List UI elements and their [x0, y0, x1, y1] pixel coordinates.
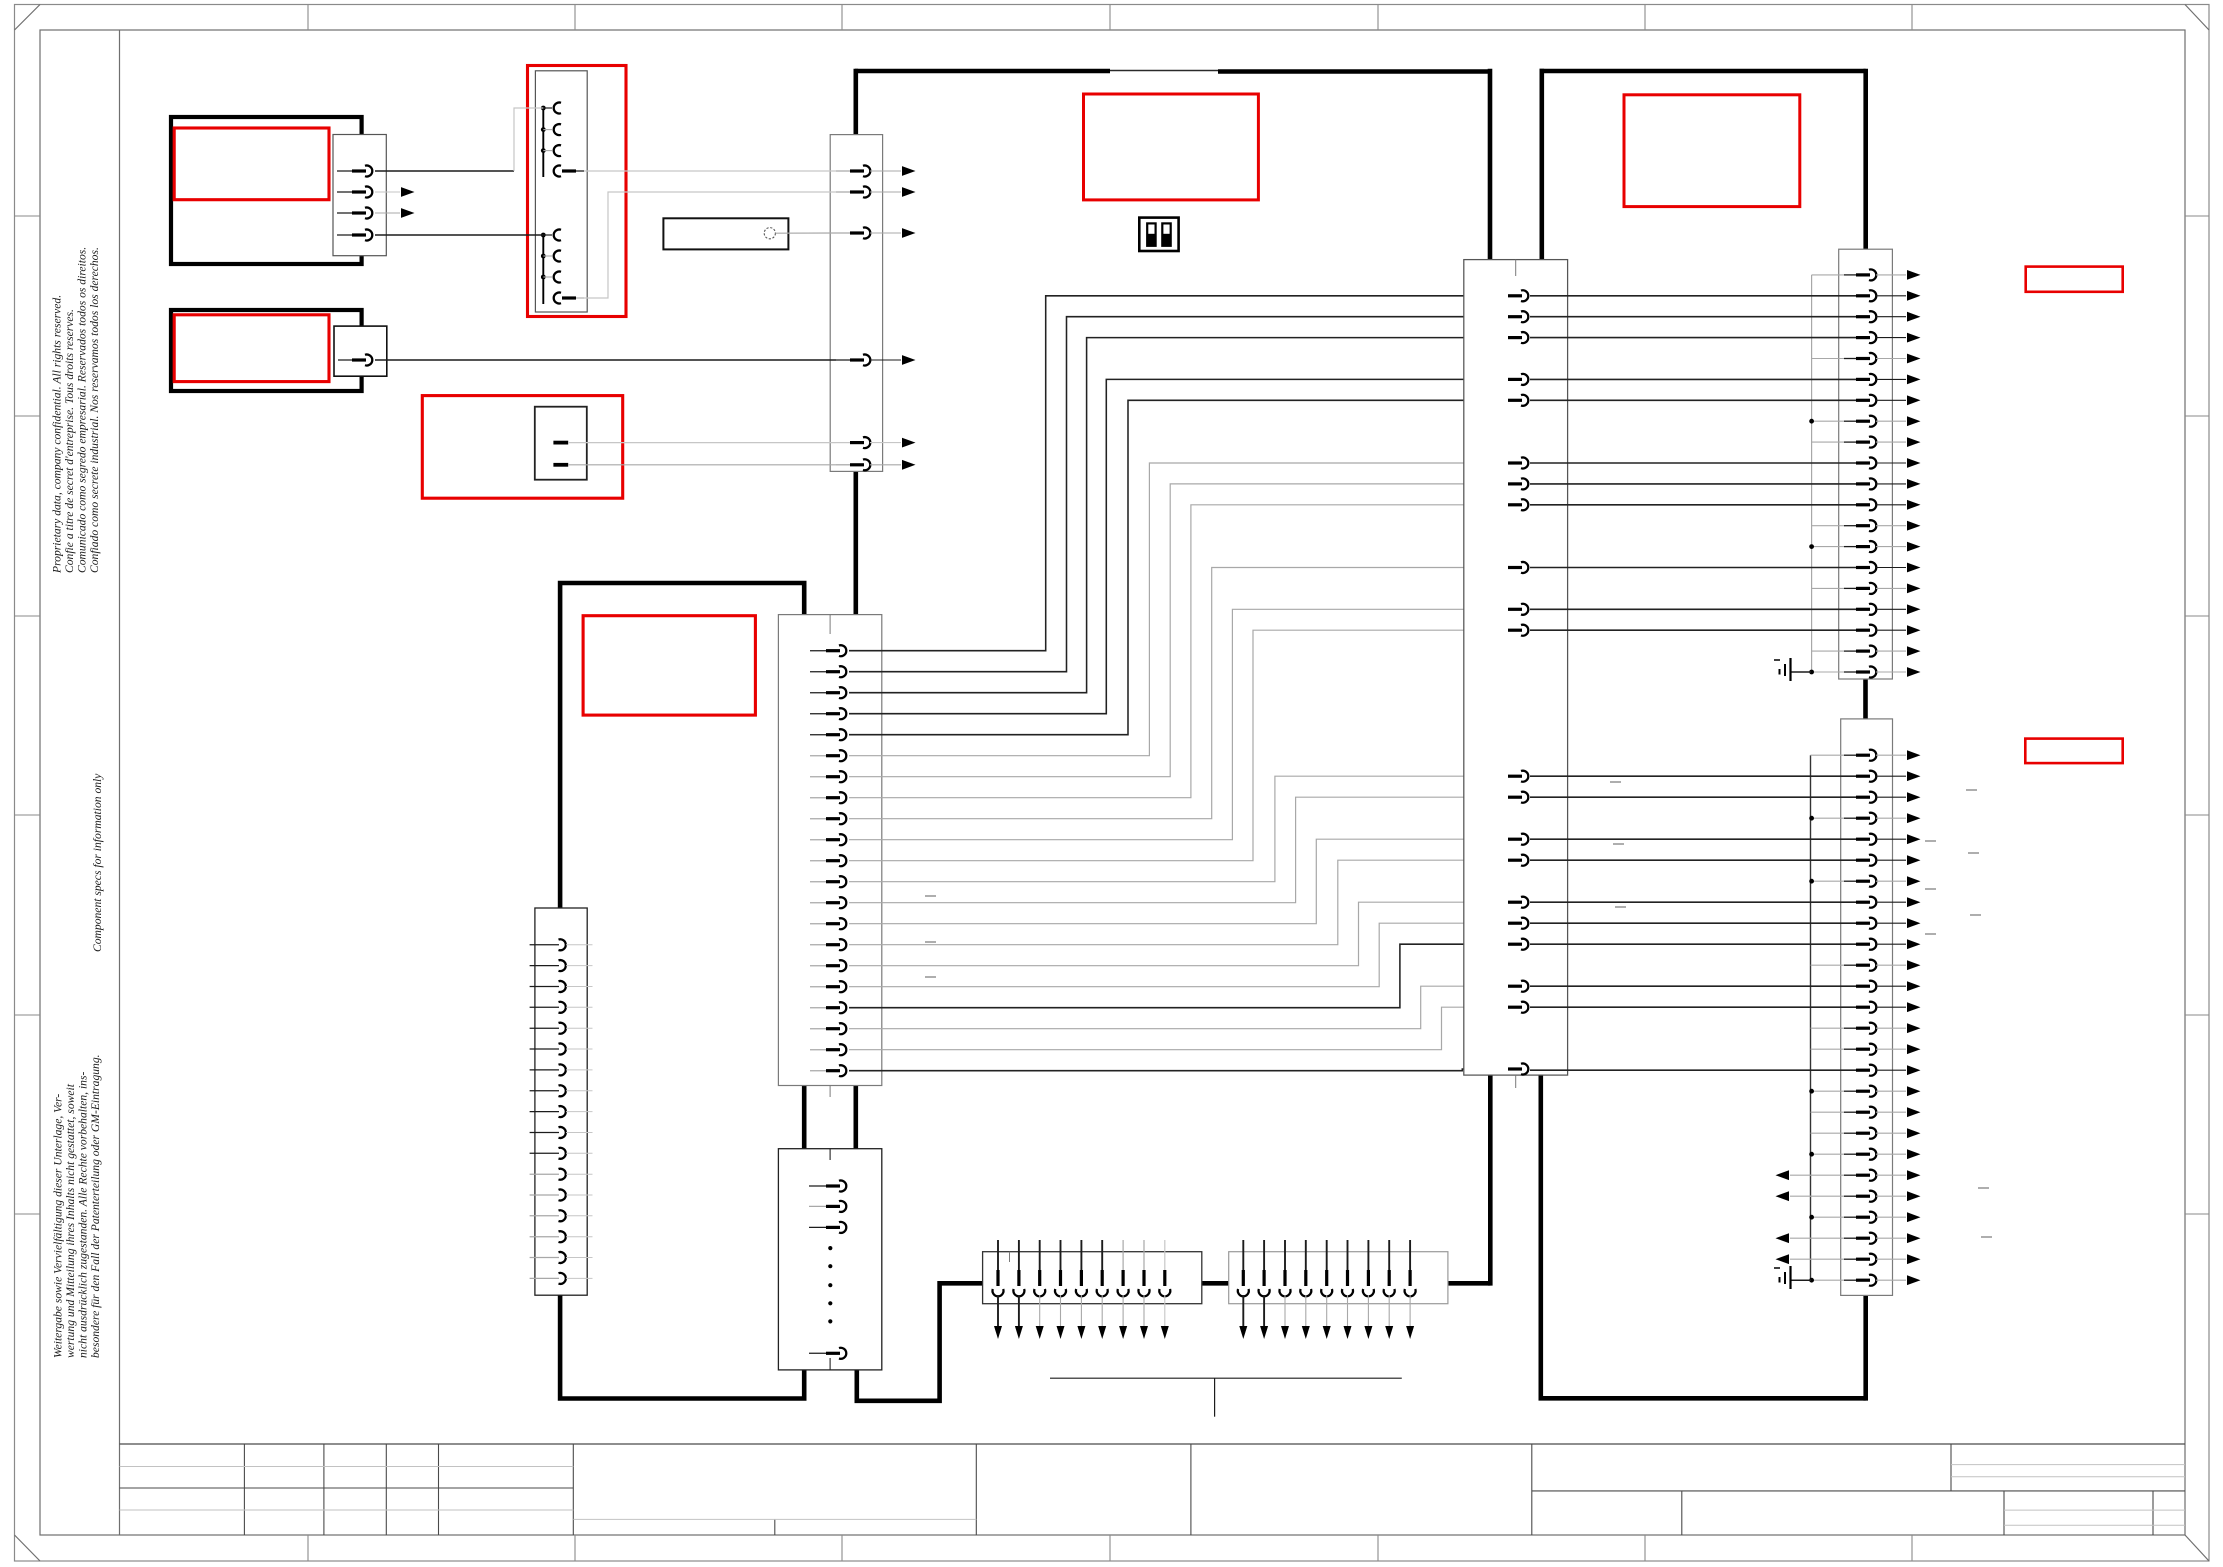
connector strip G body — [1841, 719, 1893, 1296]
strip E pin 3 — [1508, 336, 1522, 339]
wire B17 cascade to center connector — [849, 923, 1509, 987]
strip F pin 5 — [1812, 358, 1845, 360]
strip G pin 8 — [1530, 901, 1857, 903]
strip F pin 13 arrow — [1907, 521, 1921, 531]
strip D pin 4 — [530, 1006, 559, 1008]
strip D pin 3 — [530, 986, 559, 988]
strip B pin 17 — [810, 986, 828, 988]
strip F pin 15 — [1530, 567, 1857, 569]
strip G pin 8 arrow — [1907, 897, 1921, 907]
strip G pin 22 — [1811, 1195, 1846, 1197]
strip B pin 1 — [810, 650, 828, 652]
component F1 (fuse element) — [663, 218, 788, 249]
arrow block H pin 4 — [1060, 1240, 1062, 1270]
wire B8 cascade to center connector — [849, 505, 1509, 798]
strip A pin 6 arrow — [902, 460, 916, 470]
strip G pin 1 — [1811, 754, 1846, 756]
strip B pin 5 — [810, 734, 828, 736]
B1 pin 3 — [337, 212, 354, 214]
K1 pin 2 — [541, 127, 546, 132]
strip G pin 24 — [1811, 1237, 1846, 1239]
strip G pin 20 arrow — [1907, 1149, 1921, 1159]
strip D pin 14 — [530, 1215, 559, 1217]
strip F pin 16 arrow — [1907, 584, 1921, 594]
strip F pin 12 arrow — [1907, 500, 1921, 510]
strip G pin 18 — [1811, 1111, 1846, 1113]
strip F pin 17 — [1530, 608, 1857, 610]
strip E top center tick — [1515, 260, 1517, 276]
strip B pin 15 — [810, 944, 828, 946]
strip B pin 4 — [810, 713, 828, 715]
B1 pin 1 — [337, 170, 354, 172]
wire B10 cascade to center connector — [849, 609, 1509, 839]
K1 pin 4 — [554, 166, 561, 177]
strip E pin 1 — [1508, 294, 1522, 297]
arrow block I pin 6 — [1347, 1240, 1349, 1270]
frame zone ticks right margin — [2185, 216, 2209, 1214]
red label frame R4 (strip G label) — [2025, 739, 2122, 764]
strip F pin 3 arrow — [1907, 312, 1921, 322]
strip D pin 16 — [530, 1257, 559, 1259]
wire K1.8 to strip A pin2 — [584, 192, 836, 298]
K1 bus upper — [542, 108, 544, 177]
K1 body — [535, 71, 587, 312]
strip F pin 14 arrow — [1907, 542, 1921, 552]
strip E pin 4 — [1508, 378, 1522, 381]
K2 pin 2 — [553, 463, 568, 467]
ground at strip F pin 20 — [1791, 671, 1811, 673]
strip F pin 1 — [1812, 274, 1845, 276]
K1 pin 5 — [541, 233, 546, 238]
module M2 left ECU outline — [560, 583, 804, 908]
strip C bottom center tick — [829, 1358, 831, 1370]
wire B11 cascade to center connector — [849, 630, 1509, 861]
connector strip F body — [1839, 249, 1893, 679]
red label frame R1 (central module) — [1084, 94, 1259, 200]
strip A pin 1 — [836, 170, 852, 172]
wire B1.3 stub — [375, 212, 400, 214]
strip E pin 10 — [1508, 608, 1522, 611]
strip F pin 13 — [1812, 525, 1845, 527]
wire B1.1 to K1 — [375, 170, 514, 172]
strip G pin 14 arrow — [1907, 1023, 1921, 1033]
strip D pin 8 — [530, 1090, 559, 1092]
wire B4 cascade to center connector — [849, 379, 1509, 713]
strip A pin 3 arrow — [902, 228, 916, 238]
strip G pin 6 — [1530, 859, 1857, 861]
wire B16 cascade to center connector — [849, 902, 1509, 966]
module M2 red highlight — [583, 616, 755, 715]
strip G pin 12 arrow — [1907, 981, 1921, 991]
arrow block H pin 5 — [1080, 1240, 1082, 1270]
strip F pin 7 arrow — [1907, 395, 1921, 405]
strip B pin 18 — [810, 1007, 828, 1009]
strip G pin 10 — [1530, 943, 1857, 945]
strip G pin 17 — [1811, 1090, 1846, 1092]
strip F pin 15 arrow — [1907, 563, 1921, 573]
strip G pin 23 — [1811, 1216, 1846, 1218]
strip E pin 5 — [1508, 399, 1522, 402]
strip G pin 2 — [1530, 775, 1857, 777]
strip F pin 8 arrow — [1907, 416, 1921, 426]
component box B1 (sensor unit) — [171, 117, 362, 264]
strip G pin 21 arrow — [1907, 1170, 1921, 1180]
strip F pin 18 arrow — [1907, 625, 1921, 635]
arrow block H pin 7 — [1122, 1240, 1124, 1270]
wire B3 cascade to center connector — [849, 338, 1509, 693]
module M3 right ECU outline — [1540, 69, 1866, 74]
strip G pin 21 — [1811, 1174, 1846, 1176]
strip E pin 13 — [1508, 796, 1522, 799]
arrow block I pin 4 — [1305, 1240, 1307, 1270]
strip B bottom center tick — [829, 1086, 831, 1098]
strip F pin 20 arrow — [1907, 667, 1921, 677]
wire B1.2 stub — [375, 191, 400, 193]
strip F pin 10 arrow — [1907, 458, 1921, 468]
strip F pin 19 — [1812, 650, 1845, 652]
frame corner diagonal top-left — [15, 5, 41, 31]
strip A pin 1 arrow — [902, 166, 916, 176]
frame corner diagonal bottom-left — [15, 1535, 41, 1561]
arrow block H pin 1 — [997, 1240, 999, 1270]
strip B pin 3 — [810, 692, 828, 694]
strip G pin 15 arrow — [1907, 1044, 1921, 1054]
frame corner diagonal top-right — [2185, 5, 2209, 31]
strip G pin 18 arrow — [1907, 1107, 1921, 1117]
strip G pin 25 left arrow — [1790, 1258, 1812, 1260]
strip D pin 7 — [530, 1069, 559, 1071]
arrow block I pin 2 — [1263, 1240, 1265, 1270]
K2 body — [535, 407, 587, 480]
svg-text:wertung und Mitteilung ihres I: wertung und Mitteilung ihres Inhalts nic… — [64, 1083, 77, 1358]
strip F pin 7 — [1530, 399, 1857, 401]
strip F pin 2 arrow — [1907, 291, 1921, 301]
strip G pin 26 arrow — [1907, 1275, 1921, 1285]
strip G pin 4 arrow — [1907, 813, 1921, 823]
module M1 central ECU outline — [855, 69, 1110, 74]
strip G pin 10 arrow — [1907, 939, 1921, 949]
wire B1.4 to K1 lower — [375, 234, 543, 236]
strip B pin 13 — [810, 902, 828, 904]
strip B pin 6 — [810, 755, 828, 757]
strip E pin 14 — [1508, 838, 1522, 841]
K1 pin 7 — [541, 275, 546, 280]
connector K1 red highlight — [528, 66, 627, 317]
strip G pin 7 arrow — [1907, 876, 1921, 886]
strip B pin 7 — [810, 776, 828, 778]
strip D pin 15 — [530, 1236, 559, 1238]
margin note: Weitergabe (DE) — [52, 1054, 103, 1358]
arrow block H pin 8 — [1143, 1240, 1145, 1270]
wire B1 cascade to center connector — [849, 296, 1509, 651]
strip F pin 8 — [1812, 420, 1845, 422]
strip C pin 3 — [809, 1226, 828, 1228]
arrow block H pin 6 — [1101, 1240, 1103, 1270]
strip G pin 22 arrow — [1907, 1191, 1921, 1201]
strip E pin 12 — [1508, 775, 1522, 778]
strip D pin 9 — [530, 1111, 559, 1113]
strip F pin 19 arrow — [1907, 646, 1921, 656]
K1 pin 6 — [541, 254, 546, 259]
strip G pin 23 arrow — [1907, 1212, 1921, 1222]
strip B pin 20 — [810, 1049, 828, 1051]
strip C pin 2 — [809, 1205, 828, 1207]
connector strip D body — [535, 908, 587, 1295]
strip G pin 11 arrow — [1907, 960, 1921, 970]
strip G pin 13 — [1530, 1006, 1857, 1008]
svg-text:Comunicado como segredo empres: Comunicado como segredo empresarial. Res… — [76, 247, 89, 573]
arrow block H pin 9 — [1164, 1240, 1166, 1270]
component box B2 (sensor unit) — [171, 310, 362, 391]
strip E pin 17 — [1508, 922, 1522, 925]
B2 connector face — [334, 326, 387, 376]
strip F pin 9 — [1812, 441, 1845, 443]
strip D pin 1 — [530, 944, 559, 946]
strip F pin 3 — [1530, 316, 1857, 318]
K1 bus lower — [542, 235, 544, 304]
strip B pin 14 — [810, 923, 828, 925]
arrow block I pin 3 — [1284, 1240, 1286, 1270]
strip F pin 6 arrow — [1907, 375, 1921, 385]
wire B7 cascade to center connector — [849, 484, 1509, 777]
strip A pin 4 arrow — [902, 355, 916, 365]
arrow block H body — [983, 1252, 1202, 1304]
frame zone ticks bottom margin — [308, 1535, 1912, 1561]
svg-text:Confiado como secrete industri: Confiado como secrete industrial. Nos re… — [88, 247, 101, 573]
strip E pin 20 — [1508, 1006, 1522, 1009]
strip A pin 6 — [836, 464, 852, 466]
strip B pin 16 — [810, 965, 828, 967]
K1 pin 1 — [541, 106, 546, 111]
strip E pin 9 — [1508, 566, 1522, 569]
arrow block I pin 7 — [1367, 1240, 1369, 1270]
strip G pin 13 arrow — [1907, 1002, 1921, 1012]
strip G pin 4 — [1811, 817, 1846, 819]
strip G pin 16 — [1530, 1069, 1857, 1071]
strip G pin 25 arrow — [1907, 1254, 1921, 1264]
strip C ellipsis dots — [828, 1246, 832, 1324]
DIP switch S1 — [1139, 218, 1178, 251]
wire B21 cascade to center connector — [849, 1069, 1509, 1071]
frame zone ticks top margin — [308, 5, 1912, 31]
strip G pin 22 left arrow — [1790, 1195, 1812, 1197]
ground at strip G pin 26 — [1791, 1279, 1811, 1281]
red label frame R2 (right module) — [1624, 95, 1800, 207]
arrow block I body — [1229, 1252, 1448, 1304]
strip E pin 18 — [1508, 943, 1522, 946]
arrow block I pin 1 — [1242, 1240, 1244, 1270]
wire B2 cascade to center connector — [849, 317, 1509, 672]
strip B pin 12 — [810, 881, 828, 883]
strip F pin 1 arrow — [1907, 270, 1921, 280]
strip A pin 2 — [836, 191, 852, 193]
strip G pin 6 arrow — [1907, 855, 1921, 865]
strip B pin 21 — [810, 1070, 828, 1072]
strip F pin 4 — [1530, 337, 1857, 339]
strip G pin 16 arrow — [1907, 1065, 1921, 1075]
strip B top center tick — [829, 615, 831, 634]
arrow block I pin 5 — [1326, 1240, 1328, 1270]
title block vertical dividers — [244, 1444, 2153, 1535]
strip E pin 21 — [1508, 1067, 1522, 1070]
K2 pin 1 — [553, 441, 568, 445]
strip G pin 19 arrow — [1907, 1128, 1921, 1138]
strip C top center tick — [829, 1149, 831, 1160]
strip E pin 11 — [1508, 629, 1522, 632]
wire B12 cascade to center connector — [849, 776, 1509, 882]
connector strip E body — [1464, 260, 1568, 1076]
strip G pin 9 — [1530, 922, 1857, 924]
strip F pin 5 arrow — [1907, 354, 1921, 364]
svg-text:nicht ausdrücklich zugestanden: nicht ausdrücklich zugestanden. Alle Rec… — [77, 1072, 90, 1358]
strip B pin 10 — [810, 839, 828, 841]
wire K2.2 to strip A pin6 — [568, 464, 836, 466]
wire B2.1 to strip A pin4 — [375, 359, 836, 361]
strip G pin 14 — [1811, 1027, 1846, 1029]
K1 pin 3 — [541, 148, 546, 153]
arrow block H top tick — [1009, 1252, 1011, 1262]
K1 pin 8 — [554, 293, 561, 304]
margin note: proprietary data (EN/FR/PT/ES) — [51, 247, 102, 574]
wire B20 cascade to center connector — [849, 1007, 1509, 1049]
strip B pin 19 — [810, 1028, 828, 1030]
red label frame R3 (strip F label) — [2026, 267, 2123, 292]
connector strip A body — [830, 135, 882, 472]
strip D pin 6 — [530, 1048, 559, 1050]
net bracket under arrow blocks — [1050, 1377, 1402, 1379]
strip B pin 11 — [810, 860, 828, 862]
strip F pin 17 arrow — [1907, 604, 1921, 614]
B2 red highlight — [174, 315, 329, 382]
B1 pin 4 — [337, 234, 354, 236]
strip G pin 5 arrow — [1907, 834, 1921, 844]
svg-text:Confie a titre de secret d': Confie a titre de secret d'entreprise. T… — [63, 309, 76, 573]
strip G pin 26 — [1811, 1279, 1846, 1281]
B2 pin 1 — [338, 359, 354, 361]
strip A pin 5 — [836, 442, 852, 444]
strip G pin 11 — [1811, 964, 1846, 966]
strip D pin 5 — [530, 1027, 559, 1029]
strip G pin 17 arrow — [1907, 1086, 1921, 1096]
strip E bottom center tick — [1515, 1075, 1517, 1088]
strip G pin 7 — [1811, 880, 1846, 882]
strip F pin 16 — [1812, 587, 1845, 589]
strip C pin last — [809, 1352, 828, 1354]
wire B15 cascade to center connector — [849, 860, 1509, 945]
strip A pin 3 — [836, 232, 852, 234]
strip F pin 2 — [1530, 295, 1857, 297]
strip G pin 5 — [1530, 838, 1857, 840]
arrow block I pin 8 — [1388, 1240, 1390, 1270]
strip D pin 13 — [530, 1194, 559, 1196]
strip G pin 1 arrow — [1907, 750, 1921, 760]
strip G pin 24 arrow — [1907, 1233, 1921, 1243]
strip E pin 15 — [1508, 859, 1522, 862]
connector K2 red highlight — [422, 396, 622, 499]
strip F pin 12 — [1530, 504, 1857, 506]
wire F1 to strip A pin3 — [776, 232, 837, 234]
strip G pin 21 left arrow — [1790, 1174, 1812, 1176]
wire B19 cascade to center connector — [849, 986, 1509, 1028]
B1 red highlight — [174, 128, 329, 200]
svg-text:Weitergabe sowie Vervielfält: Weitergabe sowie Vervielfältigung dieser… — [52, 1094, 65, 1358]
strip B pin 2 — [810, 671, 828, 673]
strip G pin 12 — [1530, 985, 1857, 987]
strip E pin 2 — [1508, 315, 1522, 318]
strip F pin 4 arrow — [1907, 333, 1921, 343]
connector strip C body — [778, 1149, 881, 1370]
strip G pin 25 — [1811, 1258, 1846, 1260]
wire K1.4 to strip A pin1 — [584, 170, 836, 172]
strip G pin 19 — [1811, 1132, 1846, 1134]
strip A pin 4 — [836, 359, 852, 361]
arrow block H pin 2 — [1018, 1240, 1020, 1270]
wire B14 cascade to center connector — [849, 839, 1509, 924]
strip F pin 6 — [1530, 378, 1857, 380]
strip E pin 6 — [1508, 461, 1522, 464]
strip G pin 3 — [1530, 796, 1857, 798]
strip G pin 3 arrow — [1907, 792, 1921, 802]
svg-text:Proprietary data, company con: Proprietary data, company confidential. … — [51, 295, 64, 574]
strip F pin 18 — [1530, 629, 1857, 631]
title block top line — [120, 1443, 2186, 1445]
wire number stubs — [925, 782, 1992, 1237]
strip F pin 11 — [1530, 483, 1857, 485]
strip D pin 10 — [530, 1132, 559, 1134]
wire B9 cascade to center connector — [849, 568, 1509, 819]
strip E pin 8 — [1508, 503, 1522, 506]
F1 contact circle — [764, 228, 775, 239]
connector strip B body — [778, 615, 881, 1086]
frame zone ticks left margin — [15, 216, 41, 1214]
strip F pin 10 — [1530, 462, 1857, 464]
B1 connector face — [333, 135, 386, 256]
strip G pin 15 — [1811, 1048, 1846, 1050]
strip F pin 11 arrow — [1907, 479, 1921, 489]
frame corner diagonal bottom-right — [2185, 1535, 2209, 1561]
strip A pin 5 arrow — [902, 438, 916, 448]
B1 pin 2 — [337, 191, 354, 193]
strip E pin 19 — [1508, 985, 1522, 988]
arrow block I pin 9 — [1409, 1240, 1411, 1270]
wire B6 cascade to center connector — [849, 463, 1509, 756]
wire B18 cascade to center connector — [849, 944, 1509, 1008]
strip G pin 9 arrow — [1907, 918, 1921, 928]
strip B pin 9 — [810, 818, 828, 820]
strip F pin 20 — [1812, 671, 1845, 673]
strip D pin 12 — [530, 1173, 559, 1175]
wire B5 cascade to center connector — [849, 400, 1509, 734]
strip B pin 8 — [810, 797, 828, 799]
strip A pin 2 arrow — [902, 187, 916, 197]
strip G pin 24 left arrow — [1790, 1237, 1812, 1239]
strip D pin 11 — [530, 1152, 559, 1154]
strip D pin 2 — [530, 965, 559, 967]
wire K2.1 to strip A pin5 — [568, 442, 836, 444]
svg-text:Component specs for informatio: Component specs for information only — [91, 773, 104, 952]
strip D pin 17 — [530, 1277, 559, 1279]
title block horizontal lines — [120, 1465, 2186, 1526]
svg-text:besondere für den Fall der Pat: besondere für den Fall der Patenterteilu… — [89, 1054, 102, 1358]
wire branch up to K1 pin1 — [514, 108, 543, 171]
strip E pin 7 — [1508, 482, 1522, 485]
strip F gray bus — [1811, 275, 1813, 672]
strip F pin 14 — [1812, 546, 1845, 548]
strip F pin 9 arrow — [1907, 437, 1921, 447]
strip G pin 2 arrow — [1907, 771, 1921, 781]
strip G pin 20 — [1811, 1153, 1846, 1155]
strip E pin 16 — [1508, 901, 1522, 904]
